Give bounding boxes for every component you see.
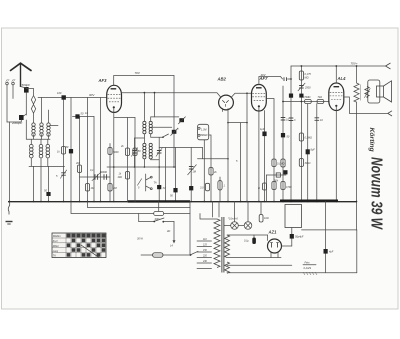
- output terminal fork: [386, 63, 391, 69]
- IF coil upper right: [149, 121, 152, 133]
- transformer taps: [197, 240, 212, 242]
- wire x174 vertical: [173, 76, 175, 168]
- svg-text:70V+: 70V+: [351, 62, 358, 66]
- wire y127.3: [151, 126, 172, 128]
- svg-text:50000: 50000: [100, 171, 108, 174]
- svg-text:2000pF: 2000pF: [11, 121, 22, 125]
- wire TA down: [203, 140, 205, 202]
- wire: [143, 159, 145, 167]
- svg-text:Mittel: Mittel: [53, 245, 59, 248]
- wire AF7 right leg: [264, 111, 266, 202]
- svg-text:0,5M: 0,5M: [286, 186, 292, 189]
- wire x356.8 down: [356, 230, 358, 273]
- svg-text:4Ω: 4Ω: [167, 230, 170, 233]
- capacitor blob x283: [281, 133, 285, 137]
- ground symbol: [8, 202, 10, 215]
- trimmer capacitor 0,1MF: [95, 174, 98, 179]
- wire: [24, 114, 27, 116]
- svg-text:1,3M: 1,3M: [201, 129, 206, 132]
- wire column x301.4: [300, 66, 302, 202]
- wire tap: [135, 137, 145, 139]
- transformer heater winding: [225, 262, 230, 273]
- resistor x264.5 lower: [262, 183, 266, 190]
- svg-text:0,3MΩ: 0,3MΩ: [305, 137, 313, 140]
- wire column x94: [93, 117, 95, 202]
- resistor 0,1M: [272, 159, 276, 167]
- resistor 40ohm x127.5: [125, 172, 129, 180]
- wire: [12, 85, 14, 99]
- wire: [143, 134, 145, 143]
- mains switch: [139, 221, 154, 223]
- resistor x272 lower: [272, 182, 276, 190]
- wire column x79.5: [79, 117, 81, 202]
- switch table: [52, 233, 106, 258]
- wire drops to bus: [33, 166, 35, 201]
- mains line 3 with resistor 30ohm: [71, 202, 154, 214]
- resistor x283 mid2: [281, 159, 285, 167]
- resistor x135: [134, 118, 136, 202]
- trimmer capacitor blob 1: [179, 118, 184, 122]
- wire primary top: [200, 214, 217, 220]
- chassis bus: [8, 201, 357, 203]
- svg-text:500pF: 500pF: [22, 83, 31, 87]
- svg-text:AL4: AL4: [337, 76, 347, 81]
- svg-text:TA: TA: [53, 255, 56, 258]
- horizontal line y158.8: [198, 158, 229, 160]
- wire column x291: [290, 66, 292, 202]
- antenna terminal 2: [12, 82, 15, 85]
- fuse: [153, 253, 164, 257]
- wire AL4 to speaker lower: [344, 97, 388, 113]
- resistor pill x220: [219, 177, 221, 202]
- HT winding to AZ1: [227, 234, 268, 236]
- horizontal line y147.5: [159, 147, 202, 149]
- svg-text:AB2: AB2: [217, 77, 227, 82]
- junction dots on chassis bus: [9, 201, 358, 203]
- dial lamp 1: [231, 222, 239, 230]
- wire to capacitor 50: [48, 166, 50, 192]
- fuse line: [141, 254, 153, 256]
- capacitor bars x283 mid: [281, 118, 286, 121]
- svg-text:Kurz: Kurz: [53, 240, 59, 243]
- resistor 7k horizontal: [317, 99, 324, 103]
- svg-text:4μF: 4μF: [329, 251, 334, 254]
- antenna terminal 1: [6, 82, 9, 85]
- wire AF3 cathode link: [114, 117, 135, 119]
- resistor 50k on y175: [276, 173, 280, 177]
- wire AF3 anode to 70V: [114, 76, 174, 86]
- variable capacitor diamonds: [31, 96, 35, 105]
- AL4 grid line: [283, 101, 329, 103]
- wire coil3 top tap: [50, 125, 58, 127]
- top rail 70V+: [291, 65, 386, 67]
- wire column x266.4: [265, 175, 267, 202]
- svg-text:Ω: Ω: [258, 187, 260, 190]
- field coil zigzag: [356, 66, 358, 83]
- capacitor bars x291: [289, 118, 294, 121]
- svg-text:1μF: 1μF: [260, 127, 265, 131]
- wire x154.5: [154, 93, 156, 117]
- wire IF input: [143, 93, 145, 122]
- svg-text:TA: TA: [154, 182, 157, 185]
- horizontal y229.9: [302, 229, 357, 231]
- svg-text:3,0: 3,0: [200, 187, 204, 190]
- capacitor 0,1uF: [253, 235, 255, 238]
- speaker: [368, 80, 380, 103]
- transformer T1 primary: [214, 219, 220, 267]
- wire 30ohm to bus: [158, 202, 160, 212]
- capacitor blob x191.2: [189, 186, 193, 190]
- wire column x307.7: [307, 104, 309, 202]
- svg-text:2500: 2500: [304, 87, 311, 90]
- svg-text:Körting: Körting: [368, 128, 375, 153]
- wire AB2 to AF7 grid: [231, 93, 251, 97]
- resistor x127.5: [127, 118, 129, 202]
- horizontal line y166.4 left block: [29, 165, 65, 167]
- capacitor 1uF: [262, 132, 266, 137]
- wire: [21, 87, 27, 89]
- trimmer capacitor blob 2: [172, 130, 177, 134]
- coil L6 lower row: [46, 144, 50, 158]
- resistor 30 ohm: [154, 211, 164, 215]
- svg-text:8μF: 8μF: [311, 149, 316, 152]
- AZ1 legs: [271, 253, 278, 258]
- AB2 legs: [222, 108, 224, 111]
- horizontal line y177: [80, 176, 111, 178]
- svg-text:0,2A/S: 0,2A/S: [304, 267, 312, 270]
- switch contact: [163, 134, 169, 137]
- trimmer capacitor x159: [158, 138, 160, 202]
- resistor 0,5M horizontal: [305, 99, 312, 103]
- resistor x283 lower: [281, 182, 285, 190]
- svg-text:0,1: 0,1: [90, 169, 94, 172]
- lamp wires: [224, 225, 231, 227]
- capacitor blob x71: [69, 149, 73, 153]
- coil L2: [40, 123, 43, 136]
- svg-text:0,5MΩ: 0,5MΩ: [303, 96, 311, 99]
- svg-text:MΩ: MΩ: [305, 77, 309, 80]
- capacitor bars x316.8: [315, 118, 320, 121]
- wire lower coil bottoms to y166.4: [31, 158, 48, 167]
- svg-text:50μ4μF: 50μ4μF: [295, 236, 304, 239]
- heater line: [227, 257, 281, 259]
- capacitor 8uF: [306, 149, 310, 154]
- capacitor blob above y175: [283, 170, 287, 174]
- resistor box x207.5: [205, 183, 209, 191]
- wire: [33, 135, 35, 140]
- wire IF right mid with switch: [151, 134, 163, 137]
- wire IF lower right: [151, 158, 160, 161]
- resistor 0,175M: [299, 71, 303, 80]
- svg-text:Lang: Lang: [53, 250, 59, 253]
- wire IF upper right top: [151, 117, 179, 122]
- capacitor 50+4uF: [290, 234, 294, 239]
- resistor 30k x301: [299, 159, 303, 167]
- IF coil lower left: [143, 143, 146, 159]
- wire column x240.6: [240, 123, 242, 202]
- svg-text:240: 240: [202, 260, 208, 263]
- pickup jack TA box: [198, 124, 209, 140]
- resistor 1W: [61, 147, 65, 155]
- wire AF3 cathode down: [113, 108, 115, 201]
- wire column x191.2 potentiometer: [190, 148, 192, 202]
- wire AF7 cathode down: [258, 107, 260, 201]
- svg-text:220: 220: [202, 256, 208, 258]
- capacitor blob on 50V line: [75, 114, 79, 118]
- capacitor 2000pF: [19, 115, 24, 120]
- wire x247: [246, 93, 248, 122]
- svg-text:AZ1: AZ1: [268, 230, 278, 235]
- resistor 0,3M x301: [299, 133, 303, 141]
- svg-text:30 W: 30 W: [137, 238, 143, 241]
- trimmer capacitor: [61, 173, 66, 175]
- wire switch feed: [138, 214, 140, 222]
- capacitor 100 blob: [299, 94, 303, 98]
- wire y122.6: [228, 122, 247, 124]
- svg-text:40Ω: 40Ω: [118, 176, 123, 179]
- coil L1: [32, 123, 35, 136]
- AZ1 cathode to filter: [282, 245, 292, 247]
- wire AL4 top: [335, 66, 337, 83]
- transformer core: [221, 217, 223, 273]
- AZ1 anode wire: [267, 235, 269, 241]
- IF coil lower right: [149, 143, 152, 159]
- wire column x100.5: [100, 98, 102, 202]
- wire column x175.5: [175, 148, 177, 202]
- wire column x316.8: [316, 104, 318, 202]
- svg-text:AF7: AF7: [259, 76, 269, 81]
- voltage selector arrow: [173, 222, 175, 242]
- coil L3: [47, 123, 50, 136]
- resistor 25k x211: [209, 135, 211, 202]
- trimmer arrow x139: [137, 179, 142, 186]
- mains line 2: [88, 202, 191, 208]
- wire ticks to transformer: [212, 202, 214, 218]
- svg-text:10Ω: 10Ω: [264, 217, 269, 220]
- capacitor 4uF column: [325, 202, 327, 273]
- resistor 2M: [108, 184, 112, 192]
- horizontal line y167: [107, 166, 175, 168]
- winding lines lower: [227, 264, 292, 266]
- horizontal line y175: [266, 174, 286, 176]
- wire AF3 to AB2: [122, 93, 221, 97]
- wire column x110: [109, 167, 111, 202]
- svg-text:100: 100: [57, 91, 62, 95]
- capacitor 50000: [104, 174, 107, 179]
- trimmer capacitor IF left: [134, 138, 136, 167]
- wire: [6, 85, 8, 122]
- svg-text:Wellen: Wellen: [53, 234, 61, 238]
- capacitor 100pF: [62, 95, 66, 99]
- capacitor 50: [46, 192, 50, 196]
- wire column x283: [282, 86, 284, 202]
- resistor 10ohm x261: [260, 202, 262, 215]
- network box: [285, 205, 302, 228]
- wire column x63: [63, 100, 65, 202]
- svg-text:Novum 39 W: Novum 39 W: [368, 157, 386, 230]
- wire lower coil tops: [31, 139, 48, 144]
- line 50V: [73, 116, 95, 118]
- transformer secondary HT: [225, 235, 230, 257]
- band switch TA contacts: [145, 174, 147, 191]
- svg-text:Fein: Fein: [305, 262, 310, 265]
- wire column x274 from AF7: [266, 99, 274, 202]
- wire column x87.5: [87, 98, 89, 202]
- resistor 1M: [77, 165, 81, 173]
- svg-text:0,1μ: 0,1μ: [244, 240, 249, 243]
- IF coil upper left: [143, 121, 146, 133]
- svg-text:AF3: AF3: [98, 78, 108, 83]
- capacitor blob x291 upper: [289, 94, 293, 98]
- grid line 90V: [38, 97, 107, 99]
- capacitor blob x175.5: [173, 188, 177, 192]
- capacitor 5000 x110: [109, 144, 111, 168]
- svg-text:3V: 3V: [163, 187, 166, 190]
- capacitor blob x159.2: [157, 185, 161, 189]
- wire: [26, 89, 33, 96]
- resistor 1M: [85, 184, 89, 192]
- antenna: [11, 63, 32, 70]
- svg-text:7kΩ: 7kΩ: [318, 96, 323, 99]
- wire column x71: [70, 98, 72, 202]
- svg-text:*10mA-6: *10mA-6: [228, 218, 238, 221]
- svg-text:5MΩ/1: 5MΩ/1: [201, 134, 209, 137]
- wire column x165.5: [165, 148, 167, 202]
- coil L4 lower row: [30, 144, 34, 158]
- wire x190 mains: [189, 202, 191, 256]
- voice coil zigzag: [365, 87, 369, 99]
- coil L5 lower row: [39, 144, 43, 158]
- trimmer capacitor 2500: [299, 86, 304, 89]
- wire AL4 down: [335, 107, 337, 202]
- wire AF7 cathode column: [246, 123, 248, 202]
- dial lamp 2: [244, 222, 252, 230]
- selector arm: [190, 251, 198, 255]
